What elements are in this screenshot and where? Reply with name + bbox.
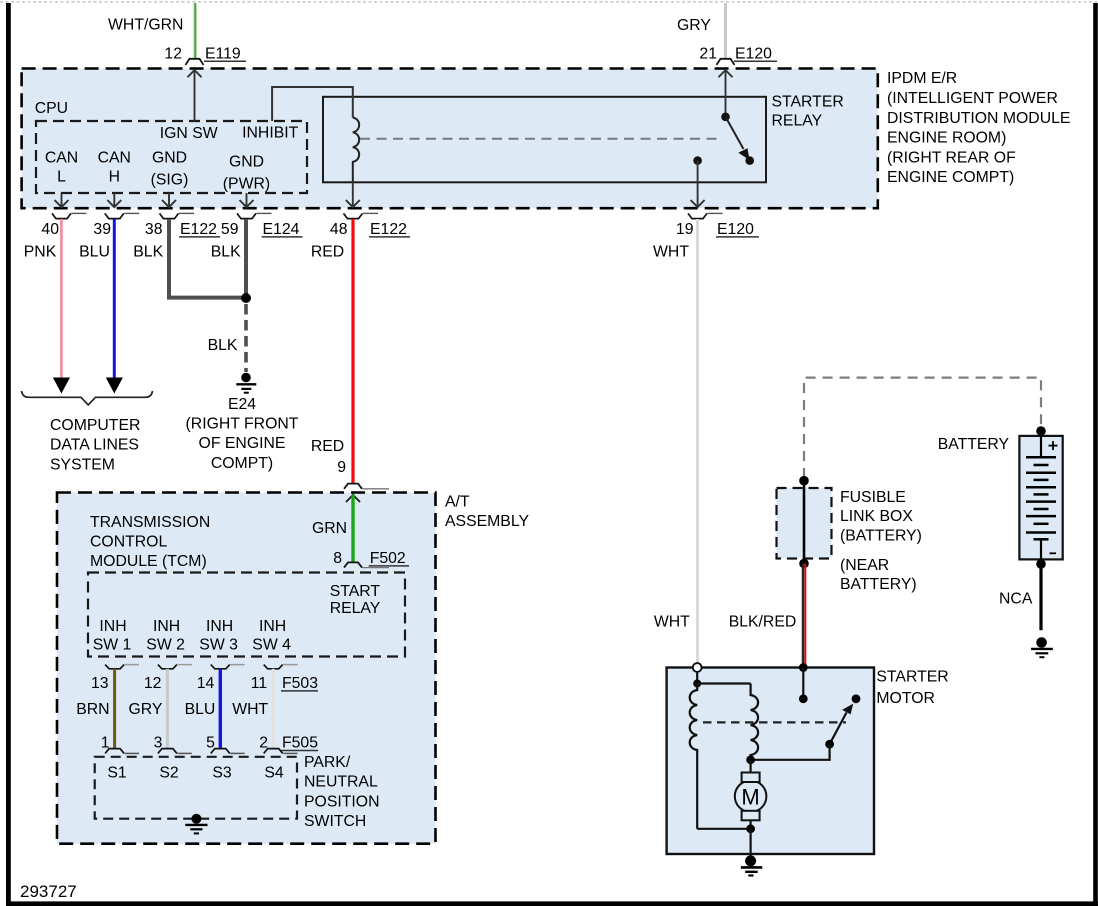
svg-text:BRN: BRN: [76, 701, 109, 718]
connector cup pin 8: [344, 562, 362, 567]
node coil bottom junction: [746, 755, 755, 764]
wire BLK pin 59: [244, 219, 248, 298]
svg-text:SW 3: SW 3: [199, 637, 238, 654]
page border left: [6, 3, 11, 902]
svg-text:59: 59: [221, 221, 239, 238]
svg-text:8: 8: [333, 550, 342, 567]
svg-text:WHT/GRN: WHT/GRN: [108, 17, 183, 34]
A/T ASSEMBLY dashed box: [57, 493, 436, 844]
svg-text:NEUTRAL: NEUTRAL: [304, 774, 378, 791]
svg-text:RED: RED: [311, 243, 344, 260]
svg-text:E122: E122: [370, 221, 407, 238]
connector cup pin 19: [688, 213, 707, 218]
wire WHT (TCM): [272, 669, 275, 748]
starter right coil: [751, 684, 759, 760]
svg-text:38: 38: [145, 221, 163, 238]
svg-text:WHT: WHT: [654, 614, 690, 631]
svg-text:E120: E120: [735, 45, 772, 62]
wire BLK dashed to E24: [244, 304, 248, 372]
svg-text:(PWR): (PWR): [223, 175, 270, 192]
IPDM E/R dashed box: [22, 69, 878, 209]
wire entry to coils: [696, 672, 698, 684]
relay switch top contact dot: [721, 113, 730, 122]
solenoid switch target dot: [852, 694, 861, 703]
relay coil: [353, 118, 359, 183]
svg-text:RELAY: RELAY: [772, 113, 823, 130]
svg-text:DATA LINES: DATA LINES: [50, 437, 139, 454]
battery minus sign: [1050, 552, 1057, 554]
svg-text:12: 12: [144, 675, 162, 692]
CAN L pin arrow: [55, 193, 69, 207]
node motor bottom junction: [746, 824, 755, 833]
svg-text:CPU: CPU: [35, 100, 68, 117]
relay output node dot: [693, 156, 702, 165]
svg-text:L: L: [57, 169, 66, 186]
motor brush bottom: [742, 811, 760, 821]
wire GRY (TCM): [166, 669, 169, 748]
svg-text:BLK: BLK: [208, 337, 238, 354]
svg-text:CAN: CAN: [98, 149, 131, 166]
connector cup pin 9: [344, 484, 362, 489]
svg-text:(NEAR: (NEAR: [840, 557, 889, 574]
START RELAY dashed box: [88, 573, 405, 657]
svg-text:COMPT): COMPT): [211, 455, 273, 472]
svg-text:COMPUTER: COMPUTER: [50, 417, 140, 434]
battery plus sign: [1049, 445, 1058, 447]
svg-text:LINK BOX: LINK BOX: [840, 508, 913, 525]
svg-text:PNK: PNK: [24, 243, 57, 260]
wire BLK pin 38: [169, 219, 246, 298]
relay mechanical dashed link: [360, 138, 717, 140]
svg-text:BATTERY: BATTERY: [938, 436, 1010, 453]
svg-text:STARTER: STARTER: [772, 93, 844, 110]
svg-text:GRY: GRY: [128, 701, 162, 718]
battery plates: [1026, 457, 1056, 539]
pin 19 arrow (relay output): [691, 161, 705, 208]
svg-text:S1: S1: [107, 765, 127, 782]
brace computer data lines: [22, 391, 153, 405]
relay switch arm: [726, 117, 744, 149]
wire NCA: [1039, 564, 1042, 630]
svg-text:RELAY: RELAY: [330, 600, 381, 617]
svg-text:BLK/RED: BLK/RED: [729, 614, 797, 631]
starter relay box: [323, 97, 766, 183]
PARK/NEUTRAL POSITION SWITCH dashed box: [95, 757, 297, 819]
solenoid switch arm: [830, 713, 847, 745]
svg-text:GRN: GRN: [312, 520, 347, 537]
svg-text:A/T: A/T: [445, 494, 470, 511]
svg-text:E120: E120: [717, 221, 754, 238]
svg-text:E24: E24: [228, 396, 256, 413]
wire BLU pin 39: [113, 219, 116, 378]
svg-text:NCA: NCA: [999, 591, 1033, 608]
svg-text:BLK: BLK: [133, 243, 163, 260]
svg-text:M: M: [741, 784, 759, 809]
node battery top: [1036, 426, 1046, 436]
connector cup pin 59: [237, 213, 256, 218]
svg-text:TRANSMISSION: TRANSMISSION: [90, 514, 210, 531]
page border top (gray dotted): [0, 1, 1098, 3]
svg-text:GRY: GRY: [677, 17, 711, 34]
battery plus terminal stub: [1040, 436, 1042, 457]
wire RED pin 48 to A/T: [351, 219, 354, 483]
svg-text:INH: INH: [206, 618, 233, 635]
svg-text:ENGINE COMPT): ENGINE COMPT): [887, 169, 1014, 186]
wire BLK/RED: [802, 564, 805, 666]
pin 21 arrow into relay: [719, 70, 733, 117]
svg-text:19: 19: [676, 221, 694, 238]
svg-text:MODULE (TCM): MODULE (TCM): [90, 553, 207, 570]
svg-text:(SIG): (SIG): [151, 171, 189, 188]
node fusible top: [799, 476, 809, 486]
CPU dashed box: [36, 121, 307, 193]
motor M circle: [735, 781, 767, 813]
battery feed dashed wire: [804, 378, 1041, 478]
ground park/neutral switch: [191, 814, 201, 824]
svg-text:OF ENGINE: OF ENGINE: [199, 435, 286, 452]
svg-text:IPDM E/R: IPDM E/R: [887, 70, 957, 87]
svg-text:GND: GND: [229, 154, 264, 171]
connector cup pin 2: [264, 749, 283, 754]
svg-text:S4: S4: [264, 765, 284, 782]
ground E24: [241, 373, 251, 383]
svg-text:(BATTERY): (BATTERY): [840, 528, 922, 545]
connector cup pin 48: [344, 213, 363, 218]
svg-text:START: START: [330, 583, 381, 600]
svg-text:IGN SW: IGN SW: [160, 125, 218, 142]
page border right: [1093, 3, 1098, 906]
wire BLK/RED into solenoid contact: [799, 663, 808, 672]
svg-text:40: 40: [41, 221, 59, 238]
connector cup pin 38: [160, 213, 179, 218]
connector cup pin 3: [158, 749, 177, 754]
svg-text:S3: S3: [212, 765, 232, 782]
starter left coil: [690, 684, 698, 829]
connector cup pin 13: [105, 665, 124, 669]
svg-text:BLU: BLU: [79, 243, 110, 260]
svg-text:(RIGHT REAR OF: (RIGHT REAR OF: [887, 149, 1016, 166]
wire motor bottom: [749, 820, 751, 829]
connector cup pin 5: [211, 749, 230, 754]
svg-text:WHT: WHT: [653, 243, 689, 260]
wire WHT pin 19 to starter motor: [696, 219, 699, 663]
GND SIG pin arrow: [162, 193, 176, 207]
svg-text:INH: INH: [259, 618, 286, 635]
connector cup pin 1: [105, 749, 124, 754]
wire coil top link: [697, 682, 750, 684]
battery minus terminal stub: [1040, 539, 1042, 559]
battery box: [1019, 436, 1062, 560]
ground starter motor: [745, 855, 756, 866]
svg-text:POSITION: POSITION: [304, 793, 379, 810]
svg-text:SYSTEM: SYSTEM: [50, 456, 115, 473]
svg-text:12: 12: [164, 45, 182, 62]
svg-text:BATTERY): BATTERY): [840, 576, 917, 593]
connector cup E120 pin 21: [717, 59, 735, 65]
svg-text:SW 2: SW 2: [146, 637, 185, 654]
svg-text:F502: F502: [370, 550, 406, 567]
wire to starter ground: [749, 829, 751, 856]
node fusible bottom: [799, 559, 809, 569]
svg-text:SWITCH: SWITCH: [304, 813, 366, 830]
svg-text:BLU: BLU: [185, 701, 216, 718]
wire left coil bottom link: [697, 828, 750, 830]
svg-text:F505: F505: [282, 734, 318, 751]
wire coil to motor: [749, 760, 751, 773]
svg-text:E124: E124: [263, 221, 300, 238]
pin 12 arrow (IGN SW riser): [188, 70, 202, 121]
svg-text:PARK/: PARK/: [304, 754, 351, 771]
svg-text:F503: F503: [282, 675, 318, 692]
wire GRN: [351, 495, 354, 562]
connector cup E119 pin 12: [186, 59, 204, 65]
svg-text:INH: INH: [99, 618, 126, 635]
svg-text:E119: E119: [205, 45, 241, 62]
svg-text:21: 21: [699, 45, 717, 62]
solenoid fixed contact dot: [799, 694, 808, 703]
page border bottom: [6, 901, 1098, 906]
svg-text:14: 14: [197, 675, 215, 692]
wire GRY (top, to pin 21): [724, 3, 727, 58]
node battery bottom: [1036, 559, 1046, 569]
svg-text:SW 1: SW 1: [93, 637, 132, 654]
node switch arm pivot: [825, 740, 834, 749]
svg-text:39: 39: [93, 221, 111, 238]
connector cup pin 39: [105, 213, 124, 218]
starter mechanical dashed link: [703, 721, 846, 723]
wire INHIBIT riser: [272, 87, 353, 121]
pin 48 arrow (coil output): [346, 182, 360, 207]
svg-text:INH: INH: [153, 618, 180, 635]
svg-text:DISTRIBUTION MODULE: DISTRIBUTION MODULE: [887, 110, 1070, 127]
fusible link wire: [803, 481, 806, 564]
connector cup pin 12 (F503): [158, 665, 177, 669]
ground NCA: [1036, 637, 1047, 648]
svg-text:INHIBIT: INHIBIT: [242, 125, 299, 142]
svg-text:E122: E122: [180, 221, 217, 238]
relay switch lower contact dot: [745, 156, 754, 165]
wire coil to switch arm: [751, 744, 830, 760]
svg-text:CAN: CAN: [45, 149, 78, 166]
wire BLU (TCM): [219, 669, 222, 748]
svg-text:SW 4: SW 4: [252, 637, 291, 654]
svg-text:S2: S2: [159, 765, 178, 782]
junction dot BLK: [241, 293, 251, 303]
svg-text:(INTELLIGENT POWER: (INTELLIGENT POWER: [887, 90, 1058, 107]
GND PWR pin arrow: [240, 193, 254, 207]
node coil top junction: [693, 680, 701, 688]
pin 9 arrow (green wire): [346, 495, 360, 502]
svg-text:(RIGHT FRONT: (RIGHT FRONT: [186, 416, 299, 433]
starter motor WHT entry circle: [693, 663, 702, 672]
svg-text:9: 9: [337, 459, 346, 476]
motor brush top: [742, 773, 760, 783]
wire WHT/GRN (top, to pin 12): [193, 3, 195, 59]
svg-text:48: 48: [330, 221, 348, 238]
connector cup pin 11: [264, 665, 283, 669]
svg-text:H: H: [109, 169, 120, 186]
CAN H pin arrow: [107, 193, 121, 207]
STARTER MOTOR box: [667, 668, 874, 855]
svg-text:CONTROL: CONTROL: [90, 534, 167, 551]
connector cup pin 14: [211, 665, 230, 669]
svg-text:MOTOR: MOTOR: [876, 690, 935, 707]
svg-text:STARTER: STARTER: [876, 669, 948, 686]
svg-text:ASSEMBLY: ASSEMBLY: [445, 513, 529, 530]
svg-text:GND: GND: [152, 150, 187, 167]
wire PNK pin 40: [60, 219, 63, 378]
wire BRN: [113, 669, 116, 748]
svg-text:FUSIBLE: FUSIBLE: [840, 489, 906, 506]
svg-text:13: 13: [91, 675, 109, 692]
svg-text:293727: 293727: [20, 882, 77, 901]
svg-text:ENGINE ROOM): ENGINE ROOM): [887, 130, 1006, 147]
svg-text:BLK: BLK: [211, 243, 241, 260]
svg-text:WHT: WHT: [232, 701, 268, 718]
FUSIBLE LINK BOX dashed box: [777, 488, 832, 559]
connector cup pin 40: [52, 213, 71, 218]
svg-text:RED: RED: [311, 438, 344, 455]
svg-text:11: 11: [251, 675, 268, 692]
